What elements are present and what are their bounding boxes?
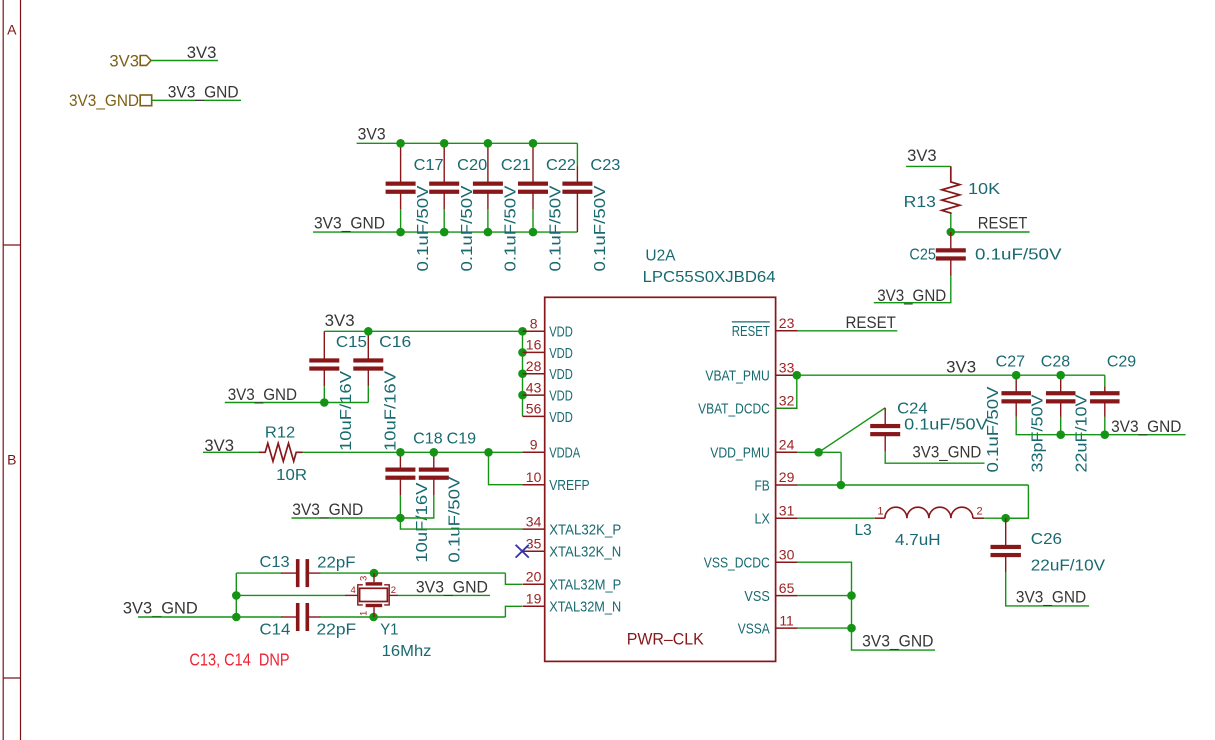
svg-text:3V3: 3V3 xyxy=(187,43,217,62)
wire crystal right 3V3_GND xyxy=(398,594,490,596)
sheet frame border xyxy=(2,0,4,740)
svg-text:XTAL32K_P: XTAL32K_P xyxy=(549,522,621,539)
svg-text:C14: C14 xyxy=(260,622,291,639)
junction dot left bus middle xyxy=(232,591,241,600)
wire 3V3_GND (C15/C16 bottom) xyxy=(225,402,368,404)
svg-text:10K: 10K xyxy=(968,181,1001,198)
wire RESET from pin 23 xyxy=(798,330,898,332)
svg-text:VBAT_DCDC: VBAT_DCDC xyxy=(698,401,770,418)
svg-text:10R: 10R xyxy=(276,467,307,484)
svg-text:C16: C16 xyxy=(379,334,411,351)
svg-text:PWR–CLK: PWR–CLK xyxy=(627,631,704,649)
op-amp U2A LPC55S0XJBD64 body xyxy=(545,297,776,661)
svg-text:R12: R12 xyxy=(265,424,295,441)
svg-text:0.1uF/50V: 0.1uF/50V xyxy=(592,185,609,272)
capacitor C27 0.1uF/50V xyxy=(1015,375,1017,392)
pin 29 FB xyxy=(776,484,798,486)
wire 3V3_GND from hierarchical pin xyxy=(152,99,241,101)
wire 3V3 from hierarchical pin xyxy=(151,60,218,62)
wire VDD bus vertical xyxy=(522,331,524,416)
svg-text:3V3: 3V3 xyxy=(946,358,976,377)
wire FB loop down to LX node xyxy=(1006,485,1029,518)
junction dot VREFP branch xyxy=(484,448,493,457)
svg-text:C18: C18 xyxy=(413,430,443,447)
svg-text:R13: R13 xyxy=(904,194,936,211)
svg-text:32: 32 xyxy=(779,392,795,408)
junction dot VDD_PMU xyxy=(814,448,823,457)
svg-text:3V3_GND: 3V3_GND xyxy=(416,578,488,597)
svg-text:0.1uF/50V: 0.1uF/50V xyxy=(904,417,988,434)
junction dot C27 top xyxy=(1012,371,1021,380)
svg-text:XTAL32M_N: XTAL32M_N xyxy=(549,599,621,616)
capacitor C21 0.1uF/50V xyxy=(487,143,489,182)
capacitor C13 22pF xyxy=(281,572,297,574)
svg-text:43: 43 xyxy=(526,379,542,395)
svg-text:3V3_GND: 3V3_GND xyxy=(862,631,933,650)
svg-text:C22: C22 xyxy=(546,157,576,174)
resistor R13 10K xyxy=(942,166,960,214)
wire 3V3 to R13 xyxy=(906,165,951,167)
svg-text:LX: LX xyxy=(755,511,770,528)
svg-text:22pF: 22pF xyxy=(317,555,355,572)
wire ground to XTAL32K_P pin 34 xyxy=(400,518,522,529)
svg-text:VSS_DCDC: VSS_DCDC xyxy=(704,555,770,572)
svg-text:23: 23 xyxy=(779,315,795,331)
svg-text:33: 33 xyxy=(779,359,795,375)
wire crystal bottom to XTAL32M_N pin 19 xyxy=(505,606,522,617)
svg-text:VDD: VDD xyxy=(549,324,573,341)
wire VBAT_DCDC jog xyxy=(776,375,797,408)
pin 34 XTAL32K_P xyxy=(523,528,545,530)
junction dot C15 bottom xyxy=(320,398,329,407)
svg-text:VREFP: VREFP xyxy=(549,477,589,494)
wire 3V3 to R12 xyxy=(203,451,259,453)
svg-text:VDD: VDD xyxy=(549,345,573,362)
wire crystal middle 3V3_GND xyxy=(236,594,345,596)
svg-text:3V3_GND: 3V3_GND xyxy=(1016,588,1086,607)
svg-text:0.1uF/50V: 0.1uF/50V xyxy=(459,185,476,272)
wire R13 to RESET node xyxy=(950,214,952,232)
svg-text:A: A xyxy=(7,22,17,38)
svg-text:C29: C29 xyxy=(1107,354,1136,371)
junction dot left bus bottom xyxy=(232,613,241,622)
svg-text:35: 35 xyxy=(526,535,542,551)
svg-text:3V3: 3V3 xyxy=(325,311,355,330)
pin 56 VDD xyxy=(523,415,545,417)
svg-text:VDD_PMU: VDD_PMU xyxy=(710,445,770,462)
crystal Y1 16Mhz xyxy=(360,588,388,601)
svg-text:FB: FB xyxy=(755,477,770,494)
wire diagonal to C24 xyxy=(819,408,886,453)
pin 31 LX xyxy=(776,517,798,519)
svg-text:3V3_GND: 3V3_GND xyxy=(912,443,981,462)
junction dot VBAT_PMU xyxy=(793,371,802,380)
junction dot VDD pin 28 xyxy=(518,369,527,378)
pin 20 XTAL32M_P xyxy=(523,583,545,585)
wire C26 to 3V3_GND xyxy=(1006,572,1089,606)
svg-text:4: 4 xyxy=(351,585,356,596)
svg-text:RESET: RESET xyxy=(846,313,896,332)
junction dot C19 top xyxy=(430,448,439,457)
svg-text:3V3: 3V3 xyxy=(907,146,937,165)
svg-text:29: 29 xyxy=(779,469,795,485)
junction dot C18 ground xyxy=(396,514,405,523)
wire R12 to VDDA pin 9 xyxy=(303,451,523,453)
svg-text:19: 19 xyxy=(526,591,542,607)
svg-text:LPC55S0XJBD64: LPC55S0XJBD64 xyxy=(643,269,776,286)
pin 32 VBAT_DCDC xyxy=(776,407,798,409)
svg-text:1: 1 xyxy=(877,505,883,517)
svg-text:28: 28 xyxy=(526,358,542,374)
pin 33 VBAT_PMU xyxy=(776,374,798,376)
wire C13 top rail xyxy=(236,572,281,574)
wire VREFP jog to pin 10 xyxy=(489,452,523,484)
svg-text:3V3_GND: 3V3_GND xyxy=(228,385,297,404)
wire C27 C28 C29 bottoms to ground rail xyxy=(1016,417,1185,435)
svg-text:8: 8 xyxy=(530,316,538,332)
wire 3V3_GND into crystal area xyxy=(138,616,282,618)
wire crystal top to XTAL32M_P pin 20 xyxy=(505,573,522,584)
svg-text:XTAL32K_N: XTAL32K_N xyxy=(549,544,621,561)
wire VSSA from pin 11 xyxy=(798,627,852,629)
junction dot crystal bottom xyxy=(369,613,378,622)
capacitor C14 22pF xyxy=(281,616,297,618)
pin 11 VSSA xyxy=(776,627,798,629)
junction dot VDD pin 16 xyxy=(518,348,527,357)
capacitor C18 10uF/16V xyxy=(399,452,401,468)
svg-text:22uF/10V: 22uF/10V xyxy=(1074,394,1091,473)
junction dots top rail xyxy=(396,139,405,148)
svg-text:3V3_GND: 3V3_GND xyxy=(1111,417,1181,436)
svg-text:65: 65 xyxy=(779,580,795,596)
wire C25 to 3V3_GND xyxy=(874,277,951,303)
junction dot FB xyxy=(837,481,846,490)
svg-text:3V3: 3V3 xyxy=(109,51,139,70)
svg-text:33pF/50V: 33pF/50V xyxy=(1029,394,1046,473)
svg-text:10uF/16V: 10uF/16V xyxy=(383,370,400,451)
wire C19 bottom to ground rail xyxy=(400,495,433,518)
junction dot C29 bottom xyxy=(1101,430,1110,439)
junction dot C28 bottom xyxy=(1056,430,1065,439)
svg-text:VDD: VDD xyxy=(549,409,573,426)
wire C24 to 3V3_GND xyxy=(885,452,984,463)
capacitor C19 0.1uF/50V xyxy=(433,452,435,468)
svg-text:C19: C19 xyxy=(447,430,477,447)
svg-text:RESET: RESET xyxy=(732,323,770,340)
svg-text:C27: C27 xyxy=(996,354,1025,371)
svg-text:RESET: RESET xyxy=(978,213,1028,232)
svg-text:C17: C17 xyxy=(414,157,444,174)
resistor R12 10R xyxy=(259,443,303,461)
junction dot VDD pin 8 xyxy=(518,327,527,336)
pin 65 VSS xyxy=(776,595,798,597)
pin 35 XTAL32K_N xyxy=(523,550,545,552)
svg-text:3V3_GND: 3V3_GND xyxy=(314,213,385,232)
svg-text:16Mhz: 16Mhz xyxy=(382,643,432,660)
svg-text:1: 1 xyxy=(359,611,370,616)
svg-text:31: 31 xyxy=(779,502,795,518)
svg-text:L3: L3 xyxy=(855,522,872,539)
svg-text:3V3_GND: 3V3_GND xyxy=(877,286,946,305)
svg-text:0.1uF/50V: 0.1uF/50V xyxy=(446,476,463,563)
capacitor C22 0.1uF/50V xyxy=(532,143,534,182)
pin 19 XTAL32M_N xyxy=(523,605,545,607)
pin 10 VREFP xyxy=(523,484,545,486)
svg-text:VDDA: VDDA xyxy=(549,445,580,462)
capacitor C26 22uF/10V xyxy=(1005,518,1007,546)
junction dot VDD pin 43 xyxy=(518,391,527,400)
svg-text:56: 56 xyxy=(526,401,542,417)
capacitor C15 10uF/16V xyxy=(323,331,325,359)
pin 9 VDDA xyxy=(523,451,545,453)
pin 43 VDD xyxy=(523,394,545,396)
svg-text:22uF/10V: 22uF/10V xyxy=(1031,558,1106,575)
svg-text:2: 2 xyxy=(977,505,983,517)
svg-text:VDD: VDD xyxy=(549,388,573,405)
svg-text:10uF/16V: 10uF/16V xyxy=(414,482,431,563)
junction dot crystal top xyxy=(370,569,379,578)
svg-text:C24: C24 xyxy=(897,401,928,418)
junction dot LX/C26 xyxy=(1001,514,1010,523)
capacitor C17 0.1uF/50V xyxy=(400,143,402,182)
svg-text:34: 34 xyxy=(526,513,542,529)
pin 16 VDD xyxy=(523,351,545,353)
svg-text:3V3: 3V3 xyxy=(358,125,386,144)
svg-text:C28: C28 xyxy=(1041,354,1070,371)
svg-text:C13: C13 xyxy=(260,554,290,571)
svg-text:VBAT_PMU: VBAT_PMU xyxy=(705,368,769,385)
junction dot RESET node xyxy=(947,228,956,237)
wire FB from pin 29 xyxy=(798,484,1029,486)
svg-text:16: 16 xyxy=(526,337,542,353)
overline on RESET pin name xyxy=(732,321,770,323)
wire 3V3 to VDD pin 8 xyxy=(324,330,522,332)
svg-text:3V3_GND: 3V3_GND xyxy=(69,91,139,110)
svg-text:VSSA: VSSA xyxy=(738,621,770,638)
wire C29 drop from rail xyxy=(1104,375,1106,386)
capacitor C25 0.1uF/50V xyxy=(950,232,952,249)
svg-text:VDD: VDD xyxy=(549,366,573,383)
capacitor C29 22uF/10V xyxy=(1104,387,1106,393)
svg-text:C13, C14 DNP: C13, C14 DNP xyxy=(189,649,289,669)
pin 23 RESET xyxy=(776,330,798,332)
pin 24 VDD_PMU xyxy=(776,451,798,453)
capacitor C16 10uF/16V xyxy=(367,331,369,359)
pin 28 VDD xyxy=(523,373,545,375)
wire LX from pin 31 xyxy=(798,517,875,519)
capacitor C24 0.1uF/50V xyxy=(884,408,886,425)
inductor L3 4.7uH xyxy=(875,517,885,519)
svg-text:C26: C26 xyxy=(1031,531,1062,548)
no-connect X on pin 35 xyxy=(516,545,529,558)
svg-text:Y1: Y1 xyxy=(380,621,398,638)
wire left bus vertical (crystal) xyxy=(235,573,237,617)
svg-text:C23: C23 xyxy=(590,157,620,174)
svg-text:10: 10 xyxy=(526,469,542,485)
svg-text:2: 2 xyxy=(391,585,396,596)
svg-text:3V3_GND: 3V3_GND xyxy=(123,599,198,618)
wire 3V3_GND bottom rail xyxy=(313,231,577,233)
svg-text:9: 9 xyxy=(530,437,538,453)
svg-text:3: 3 xyxy=(359,576,370,581)
svg-text:3V3_GND: 3V3_GND xyxy=(168,83,239,102)
junction dots bottom rail xyxy=(396,228,405,237)
junction dot VSS xyxy=(847,591,856,600)
svg-text:XTAL32M_P: XTAL32M_P xyxy=(549,577,621,594)
svg-text:0.1uF/50V: 0.1uF/50V xyxy=(415,185,432,272)
svg-text:C15: C15 xyxy=(336,334,367,351)
junction dot C28 top xyxy=(1056,371,1065,380)
svg-text:10uF/16V: 10uF/16V xyxy=(338,370,355,451)
wire LX to C26 node xyxy=(984,517,1028,519)
capacitor C20 0.1uF/50V xyxy=(443,143,445,182)
wire C18 bottom xyxy=(399,495,401,518)
capacitor C28 33pF/50V xyxy=(1060,375,1062,392)
svg-text:C20: C20 xyxy=(457,157,487,174)
svg-text:C25: C25 xyxy=(909,247,936,264)
svg-text:4.7uH: 4.7uH xyxy=(895,532,941,549)
junction dot VSSA xyxy=(847,624,856,633)
wire RESET node to label xyxy=(951,231,1030,233)
svg-text:11: 11 xyxy=(779,612,794,628)
svg-text:20: 20 xyxy=(526,569,542,585)
svg-text:C21: C21 xyxy=(501,157,531,174)
svg-text:22pF: 22pF xyxy=(317,622,357,639)
wire VSS from pin 65 xyxy=(798,595,852,597)
svg-text:0.1uF/50V: 0.1uF/50V xyxy=(548,185,565,272)
svg-text:24: 24 xyxy=(779,437,795,453)
wire VDD_PMU down to FB xyxy=(840,452,842,485)
pin 30 VSS_DCDC xyxy=(776,561,798,563)
svg-text:U2A: U2A xyxy=(645,247,676,264)
svg-text:30: 30 xyxy=(779,546,795,562)
wire 3V3 top rail xyxy=(357,142,578,144)
svg-text:B: B xyxy=(7,452,16,468)
wire 3V3_GND rail (C18/C19) xyxy=(292,517,401,519)
wire VSS_DCDC from pin 30 xyxy=(798,562,936,650)
pin 8 VDD xyxy=(523,330,545,332)
svg-text:3V3_GND: 3V3_GND xyxy=(292,500,363,519)
wire VBAT_PMU 3V3 rail xyxy=(798,374,1105,376)
capacitor C23 0.1uF/50V xyxy=(576,143,578,166)
svg-text:VSS: VSS xyxy=(744,588,769,605)
svg-text:0.1uF/50V: 0.1uF/50V xyxy=(975,247,1062,264)
junction dot C16 top xyxy=(364,327,373,336)
wire VDD_PMU from pin 24 xyxy=(798,451,842,453)
svg-text:0.1uF/50V: 0.1uF/50V xyxy=(503,185,520,272)
junction dot C18 top xyxy=(396,448,405,457)
